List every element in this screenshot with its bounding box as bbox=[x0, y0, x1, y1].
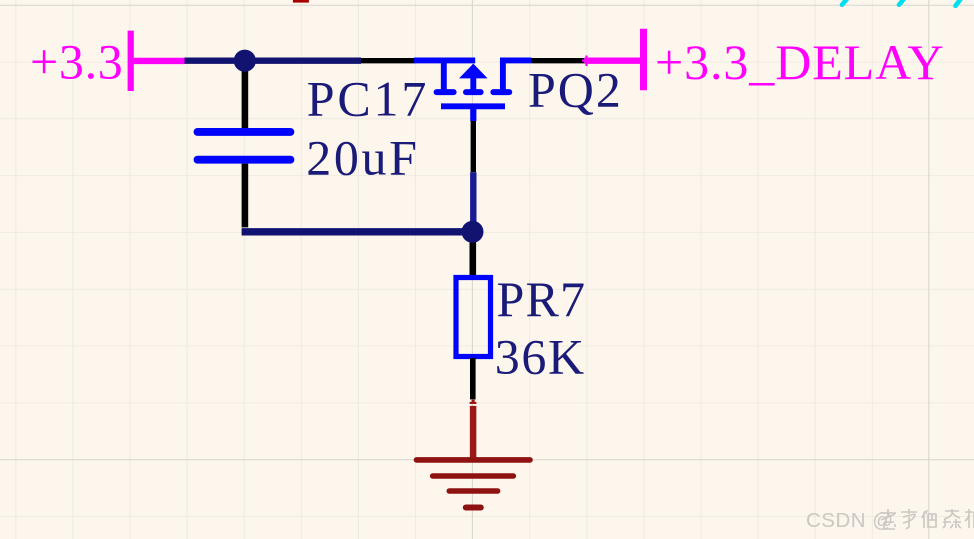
transistor PQ2 right rail (source pin) bbox=[500, 57, 532, 63]
svg-text:36K: 36K bbox=[495, 329, 586, 385]
cyan annotation stroke 2 (clipped) bbox=[899, 0, 907, 5]
svg-text:PC17: PC17 bbox=[307, 71, 429, 127]
lao bbox=[880, 509, 896, 529]
transistor PQ2 bulk arrow bbox=[459, 64, 488, 79]
transistor PQ2 middle channel bar bbox=[466, 89, 481, 95]
junction node A bbox=[234, 50, 256, 72]
svg-text:PQ2: PQ2 bbox=[528, 62, 623, 118]
wire: navy segment port to past junction bbox=[185, 58, 362, 64]
cyan annotation stroke 1 (clipped) bbox=[842, 0, 850, 5]
svg-text:PR7: PR7 bbox=[497, 271, 587, 327]
transistor PQ2 bulk stem bbox=[470, 77, 476, 90]
port connection cross (magenta) bbox=[582, 56, 591, 67]
capacitor PC17 bottom plate bbox=[198, 156, 291, 164]
wire: navy bottom rail bbox=[242, 228, 473, 235]
transistor PQ2 left channel bar bbox=[437, 89, 454, 95]
wire: black segment transistor source to port bbox=[532, 58, 585, 63]
capacitor PC17 top plate bbox=[198, 128, 291, 136]
resistor PR7 body bbox=[456, 278, 491, 357]
ground bar 1 bbox=[417, 457, 531, 463]
wire: black resistor to ground bbox=[470, 358, 476, 400]
wire: black segment to transistor drain bbox=[361, 58, 415, 63]
ground bar 2 bbox=[433, 473, 514, 479]
wire: black junction to resistor bbox=[469, 241, 476, 275]
watermark CSDN @laolidesenlin bbox=[806, 509, 974, 532]
ground connection mark (red ticks) bbox=[472, 400, 475, 404]
transistor PQ2 (PMOS) left rail (drain pin) bbox=[414, 57, 475, 63]
transistor PQ2 left vertical bbox=[441, 58, 447, 90]
svg-text:+3.3: +3.3 bbox=[30, 33, 124, 89]
power port +3.3 bar bbox=[128, 31, 134, 91]
svg-text:+3.3_DELAY: +3.3_DELAY bbox=[655, 34, 945, 90]
power port +3.3_DELAY stem bbox=[585, 58, 644, 64]
wire: black vertical capacitor to bottom rail bbox=[242, 164, 249, 228]
de bbox=[922, 510, 936, 528]
wire: black gate wire bbox=[471, 121, 476, 172]
power port +3.3 stem bbox=[131, 58, 185, 64]
lin bbox=[965, 509, 974, 528]
ground bar 4 bbox=[466, 505, 481, 511]
wire: blue gate wire segment bbox=[470, 172, 476, 221]
power port +3.3_DELAY bar bbox=[640, 29, 647, 91]
transistor PQ2 right channel bar bbox=[493, 89, 509, 95]
li bbox=[901, 509, 917, 529]
ground bar 3 bbox=[449, 488, 497, 494]
transistor PQ2 right vertical bbox=[500, 58, 506, 90]
wire: black vertical junction to capacitor bbox=[242, 63, 249, 129]
ground stem bbox=[470, 406, 477, 458]
transistor PQ2 gate plate bbox=[441, 103, 505, 109]
sen bbox=[943, 509, 961, 528]
cyan annotation stroke 3 (clipped) bbox=[956, 0, 964, 6]
hanzi glyph approximations bbox=[880, 509, 974, 529]
svg-text:20uF: 20uF bbox=[306, 129, 419, 185]
junction node B bbox=[462, 221, 484, 243]
transistor PQ2 gate stem (blue) bbox=[470, 106, 476, 121]
wire: top red clipped mark at top edge bbox=[293, 0, 309, 3]
